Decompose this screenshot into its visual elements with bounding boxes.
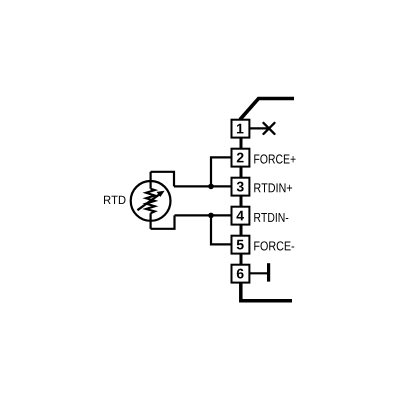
wire: vertical bus through terminal boxes — [240, 130, 243, 273]
RTD resistor zigzag — [146, 189, 155, 214]
label RTD — [104, 196, 126, 204]
RTD top lead into resistor — [150, 172, 152, 189]
label FORCE- (pin 5) — [254, 241, 294, 250]
RTD variable arrow shaft — [137, 194, 159, 210]
terminal box pin 2 — [232, 149, 250, 167]
wire: bottom return line from pin 6 — [241, 282, 292, 301]
wire: RTD bottom lead bracket — [151, 215, 175, 228]
wire: pin 1 stub to no-connect — [250, 127, 270, 129]
RTD sensor circle — [131, 181, 171, 221]
label RTDIN- (pin 4) — [254, 213, 288, 222]
wire: pin 6 stub to terminator — [250, 272, 267, 274]
RTD bottom lead out of resistor — [150, 213, 152, 229]
wire: pin 2 stub left and drop to node A — [211, 157, 231, 186]
label RTDIN+ (pin 3) — [254, 183, 292, 192]
wire: top supply line from pin 1 — [240, 99, 294, 120]
terminal box pin 4 — [232, 207, 250, 225]
node B junction dot — [208, 213, 214, 219]
node A junction dot — [208, 184, 214, 190]
wire: node A horizontal to pin 3 (RTDIN+) — [174, 185, 231, 187]
terminal box pin 1 — [232, 120, 250, 138]
terminal box pin 6 — [232, 265, 250, 283]
label FORCE+ (pin 2) — [254, 154, 295, 163]
terminal box pin 3 — [232, 178, 250, 196]
RTD variable arrow head — [157, 191, 165, 197]
wire: RTD top lead bracket — [151, 172, 174, 187]
terminal box pin 5 — [232, 236, 250, 254]
terminator bar on pin 6 — [267, 263, 270, 281]
wire: node B horizontal to pin 4 (RTDIN-) — [175, 214, 231, 216]
no-connect X on pin 1 — [264, 123, 275, 134]
wire: pin 5 stub left and rise to node B — [211, 215, 231, 244]
